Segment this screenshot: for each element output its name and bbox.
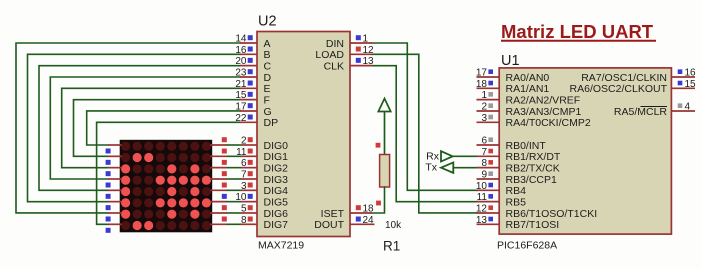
svg-text:15: 15 [235,90,247,101]
svg-text:DIG2: DIG2 [264,162,289,174]
matrix left pin row 5 [106,190,122,199]
wire Tx to U1 RB2 [454,167,477,169]
wire U2 pin C to matrix row [39,66,240,191]
svg-text:RB1/RX/DT: RB1/RX/DT [506,151,561,163]
svg-text:PIC16F628A: PIC16F628A [497,240,557,252]
svg-text:10: 10 [235,192,247,203]
svg-text:3: 3 [241,181,247,192]
wire matrix row 4 to U2 DIG4 [226,189,241,191]
R1 top pin marker [376,143,381,148]
svg-text:11: 11 [236,147,247,158]
svg-text:12: 12 [363,45,375,56]
Tx output arrow [441,162,453,172]
svg-text:C: C [264,60,272,72]
wire R1 to U2 ISET [371,187,385,213]
svg-text:DIG0: DIG0 [264,140,289,152]
svg-text:RA2/AN2/VREF: RA2/AN2/VREF [506,94,581,106]
svg-text:LOAD: LOAD [315,49,344,61]
svg-text:DIG5: DIG5 [264,196,289,208]
U1 pin 16 (RA7/OSC1/CLKIN) [581,68,696,84]
U2 pin 14 (A) [235,34,270,50]
wire U2 pin DP to matrix row [97,122,240,224]
wire matrix row 6 to U2 DIG6 [226,212,241,214]
U1 pin 11 (RB5) [477,192,527,208]
U2 pin 5 (DIG6) [241,203,288,219]
U2 pin 16 (B) [235,45,270,61]
U2 pin 17 (G) [235,101,271,117]
U1 pin 12 (RB6/T1OSO/T1CKI) [476,203,597,219]
U1 pin 10 (RB4) [476,181,526,197]
svg-text:RA7/OSC1/CLKIN: RA7/OSC1/CLKIN [581,72,667,84]
matrix right pin row 3 [210,160,227,168]
svg-text:20: 20 [235,56,247,67]
svg-text:RB2/TX/CK: RB2/TX/CK [506,162,560,174]
wire matrix row 1 to U2 DIG1 [226,155,241,157]
svg-text:D: D [264,72,272,84]
svg-text:1: 1 [363,34,369,45]
U2 pin 7 (DIG3) [241,169,288,185]
svg-text:DIG7: DIG7 [264,219,289,231]
svg-text:2: 2 [241,136,247,147]
svg-text:B: B [264,49,271,61]
svg-text:RA4/T0CKI/CMP2: RA4/T0CKI/CMP2 [506,117,591,129]
svg-text:RA5/MCLR: RA5/MCLR [614,106,668,118]
svg-text:16: 16 [235,45,247,56]
wire U2 DIN to U1 RB4 [372,43,477,190]
svg-text:RB6/T1OSO/T1CKI: RB6/T1OSO/T1CKI [506,208,598,220]
svg-text:DOUT: DOUT [314,219,344,231]
U2 pin 11 (DIG1) [236,147,288,163]
U1 pin 9 (RB3/CCP1) [477,169,558,185]
U2 pin 12 (LOAD) [315,45,374,61]
IC U1 PIC16F628A body [499,68,671,234]
matrix right pin row 4 [210,171,227,179]
svg-text:F: F [264,94,270,106]
matrix right pin row 1 [210,137,227,145]
svg-text:1: 1 [481,90,487,101]
svg-text:12: 12 [476,203,488,214]
svg-text:21: 21 [235,79,247,90]
LED matrix body [120,140,213,233]
svg-text:13: 13 [476,215,488,226]
svg-text:Matriz LED UART: Matriz LED UART [501,21,654,42]
svg-text:E: E [264,83,271,95]
matrix left pin row 3 [106,168,122,177]
svg-text:17: 17 [235,101,247,112]
svg-text:ISET: ISET [321,208,345,220]
svg-text:8: 8 [241,215,247,226]
matrix left pin row 7 [106,213,122,222]
matrix right pin row 5 [210,183,227,191]
svg-text:RB0/INT: RB0/INT [506,140,547,152]
svg-text:DIN: DIN [326,38,344,50]
LED matrix dots [121,142,211,231]
U1 pin 6 (RB0/INT) [477,136,547,152]
matrix left pin row 4 [106,179,122,188]
resistor R1 body [380,155,390,188]
U2 pin 15 (F) [235,90,270,106]
svg-text:CLK: CLK [324,60,344,72]
matrix left pin row 8 [106,224,122,233]
svg-text:U2: U2 [258,14,277,30]
wire U2 pin E to matrix row [62,88,240,167]
svg-text:10k: 10k [385,220,402,231]
svg-text:18: 18 [476,79,488,90]
svg-text:G: G [264,106,272,118]
svg-text:U1: U1 [501,53,520,69]
svg-text:DIG3: DIG3 [264,174,289,186]
svg-text:17: 17 [476,68,488,79]
svg-text:6: 6 [241,158,247,169]
wire matrix row 7 to U2 DIG7 [226,223,241,225]
wire U2 pin B to matrix row [28,54,241,201]
U1 pin 18 (RA1/AN1) [476,79,550,95]
svg-text:22: 22 [235,113,247,124]
svg-text:16: 16 [685,68,697,79]
svg-text:RA3/AN3/CMP1: RA3/AN3/CMP1 [506,106,582,118]
svg-text:4: 4 [685,101,691,112]
svg-text:RB7/T1OSI: RB7/T1OSI [506,219,560,231]
svg-text:6: 6 [481,136,487,147]
svg-text:DP: DP [264,117,279,129]
Rx input arrow [441,151,453,161]
svg-text:14: 14 [235,34,247,45]
matrix right pin row 2 [210,149,227,157]
matrix left pin row 2 [106,156,122,165]
U1 pin 1 (RA2/AN2/VREF) [477,90,581,106]
svg-text:3: 3 [481,113,487,124]
U2 pin 2 (DIG0) [241,136,288,152]
U1 pin 17 (RA0/AN0) [476,68,550,84]
svg-text:13: 13 [363,56,375,67]
U1 pin 7 (RB1/RX/DT) [477,147,561,163]
U2 pin 1 (DIN) [326,34,372,50]
matrix right pin row 8 [210,217,227,225]
svg-text:9: 9 [481,169,487,180]
svg-text:24: 24 [363,215,375,226]
svg-text:Rx: Rx [426,150,440,162]
svg-text:RB4: RB4 [506,185,527,197]
svg-text:11: 11 [477,192,488,203]
U1 pin 13 (RB7/T1OSI) [476,215,559,231]
U1 pin 15 (RA6/OSC2/CLKOUT) [570,79,697,95]
svg-text:18: 18 [363,204,375,215]
matrix left pin row 1 [106,145,122,154]
U2 pin 21 (E) [235,79,270,95]
svg-text:10: 10 [476,181,488,192]
svg-text:RA1/AN1: RA1/AN1 [506,83,550,95]
U2 pin 10 (DIG5) [235,192,288,208]
svg-text:15: 15 [685,79,697,90]
U2 pin 8 (DIG7) [241,215,288,231]
wire U2 pin F to matrix row [74,100,241,157]
R1 bottom pin marker [376,201,381,206]
wire U2 CLK to U1 RB5 [372,66,477,202]
U1 pin 3 (RA4/T0CKI/CMP2) [477,113,591,129]
svg-text:RA6/OSC2/CLKOUT: RA6/OSC2/CLKOUT [570,83,668,95]
svg-text:Tx: Tx [425,162,437,174]
wire U2 LOAD to U1 RB6 [372,54,477,213]
wire U2 pin G to matrix row [87,111,240,145]
U2 pin 3 (DIG4) [241,181,288,197]
svg-text:DIG1: DIG1 [264,151,289,163]
wire matrix row 3 to U2 DIG3 [226,178,241,180]
U2 pin 6 (DIG2) [241,158,288,174]
svg-text:7: 7 [241,169,247,180]
wire Rx to U1 RB1 [453,155,477,157]
svg-text:MAX7219: MAX7219 [258,240,304,252]
svg-text:R1: R1 [383,239,400,254]
wire U2 pin A to matrix row [16,43,240,213]
svg-text:DIG4: DIG4 [264,185,289,197]
wire matrix row 5 to U2 DIG5 [226,201,241,203]
svg-text:DIG6: DIG6 [264,208,289,220]
power terminal VCC arrow [378,99,390,155]
U1 pin 8 (RB2/TX/CK) [477,158,560,174]
wire matrix row 0 to U2 DIG0 [226,144,241,146]
svg-text:23: 23 [235,67,247,78]
matrix right pin row 6 [210,194,227,202]
svg-text:2: 2 [481,101,487,112]
svg-text:RB3/CCP1: RB3/CCP1 [506,174,558,186]
U2 pin 20 (C) [235,56,271,72]
U1 pin 4 (RA5/MCLR) [614,101,695,117]
U2 pin 18 (ISET) [321,204,374,220]
title Matriz LED UART [501,21,656,42]
svg-text:5: 5 [241,203,247,214]
U2 pin 13 (CLK) [324,56,374,72]
svg-text:8: 8 [481,158,487,169]
U2 pin 22 (DP) [235,113,278,129]
U2 pin 23 (D) [235,67,271,83]
U2 pin 24 (DOUT) [314,215,374,231]
svg-text:RB5: RB5 [506,196,527,208]
matrix right pin row 7 [210,205,227,213]
svg-text:A: A [264,38,271,50]
wire U2 pin D to matrix row [50,77,240,179]
matrix left pin row 6 [106,202,122,211]
svg-text:7: 7 [481,147,487,158]
wire matrix row 2 to U2 DIG2 [226,167,241,169]
IC U2 MAX7219 body [257,32,350,237]
svg-text:RA0/AN0: RA0/AN0 [506,72,550,84]
U1 pin 2 (RA3/AN3/CMP1) [477,101,582,117]
